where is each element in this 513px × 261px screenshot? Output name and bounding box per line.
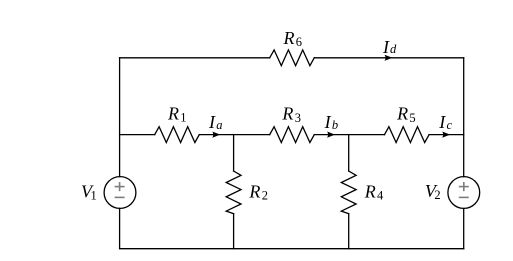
svg-text:3: 3 [295, 111, 301, 125]
svg-text:I: I [382, 37, 390, 57]
svg-text:a: a [216, 118, 222, 132]
svg-text:6: 6 [296, 35, 302, 49]
svg-text:R: R [283, 28, 295, 48]
svg-text:R: R [364, 181, 376, 201]
svg-text:c: c [447, 118, 453, 132]
svg-text:b: b [332, 118, 338, 132]
svg-text:1: 1 [180, 111, 186, 125]
svg-text:R: R [167, 103, 179, 123]
svg-text:4: 4 [377, 189, 384, 203]
svg-text:1: 1 [91, 189, 97, 203]
svg-text:I: I [438, 112, 446, 132]
svg-text:R: R [396, 104, 408, 124]
svg-text:R: R [248, 181, 260, 201]
svg-text:I: I [208, 112, 216, 132]
svg-text:I: I [324, 112, 332, 132]
svg-text:R: R [281, 104, 293, 124]
svg-text:2: 2 [434, 188, 440, 202]
svg-text:5: 5 [409, 111, 415, 125]
svg-text:d: d [390, 42, 397, 56]
svg-text:2: 2 [262, 189, 268, 203]
